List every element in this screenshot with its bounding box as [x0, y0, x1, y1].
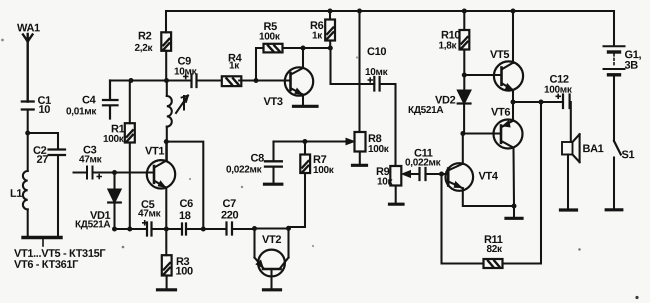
svg-text:1,8к: 1,8к [439, 41, 458, 52]
svg-text:100к: 100к [313, 165, 335, 176]
svg-text:220: 220 [221, 209, 239, 221]
svg-text:VT6 - КТ361Г: VT6 - КТ361Г [14, 259, 79, 271]
svg-text:10: 10 [39, 104, 51, 116]
svg-text:3В: 3В [625, 60, 639, 72]
svg-text:VT4: VT4 [478, 171, 498, 183]
svg-text:VT1: VT1 [145, 145, 164, 157]
svg-text:C4: C4 [82, 94, 97, 106]
svg-text:27: 27 [36, 154, 48, 166]
svg-text:1к: 1к [312, 30, 323, 41]
svg-text:47мк: 47мк [138, 208, 162, 219]
svg-text:VT3: VT3 [264, 96, 283, 108]
svg-text:100: 100 [175, 265, 193, 277]
svg-text:КД521А: КД521А [408, 105, 443, 116]
svg-text:VT5: VT5 [490, 49, 509, 61]
svg-text:100к: 100к [259, 31, 281, 42]
svg-text:S1: S1 [621, 149, 634, 161]
svg-text:BA1: BA1 [582, 143, 603, 155]
svg-text:0,022мк: 0,022мк [226, 164, 263, 175]
svg-text:100к: 100к [103, 134, 125, 145]
svg-text:10мк: 10мк [365, 67, 389, 78]
svg-text:C8: C8 [250, 152, 264, 164]
svg-text:C6: C6 [179, 198, 193, 210]
svg-text:0,01мк: 0,01мк [66, 106, 97, 117]
svg-text:VT6: VT6 [491, 107, 510, 119]
svg-text:100к: 100к [368, 144, 390, 155]
svg-text:WA1: WA1 [17, 22, 40, 34]
svg-text:47мк: 47мк [79, 154, 103, 165]
svg-text:КД521А: КД521А [75, 219, 110, 230]
svg-text:82к: 82к [486, 244, 503, 255]
svg-text:VT2: VT2 [262, 234, 281, 246]
svg-text:0,022мк: 0,022мк [405, 158, 442, 169]
svg-text:1к: 1к [229, 60, 240, 71]
svg-text:C7: C7 [222, 198, 236, 210]
svg-text:R2: R2 [138, 30, 152, 42]
svg-text:10к: 10к [377, 177, 394, 188]
svg-text:C10: C10 [367, 46, 386, 58]
svg-text:2,2к: 2,2к [135, 43, 154, 54]
svg-text:L1: L1 [10, 188, 22, 200]
svg-text:18: 18 [179, 210, 191, 222]
